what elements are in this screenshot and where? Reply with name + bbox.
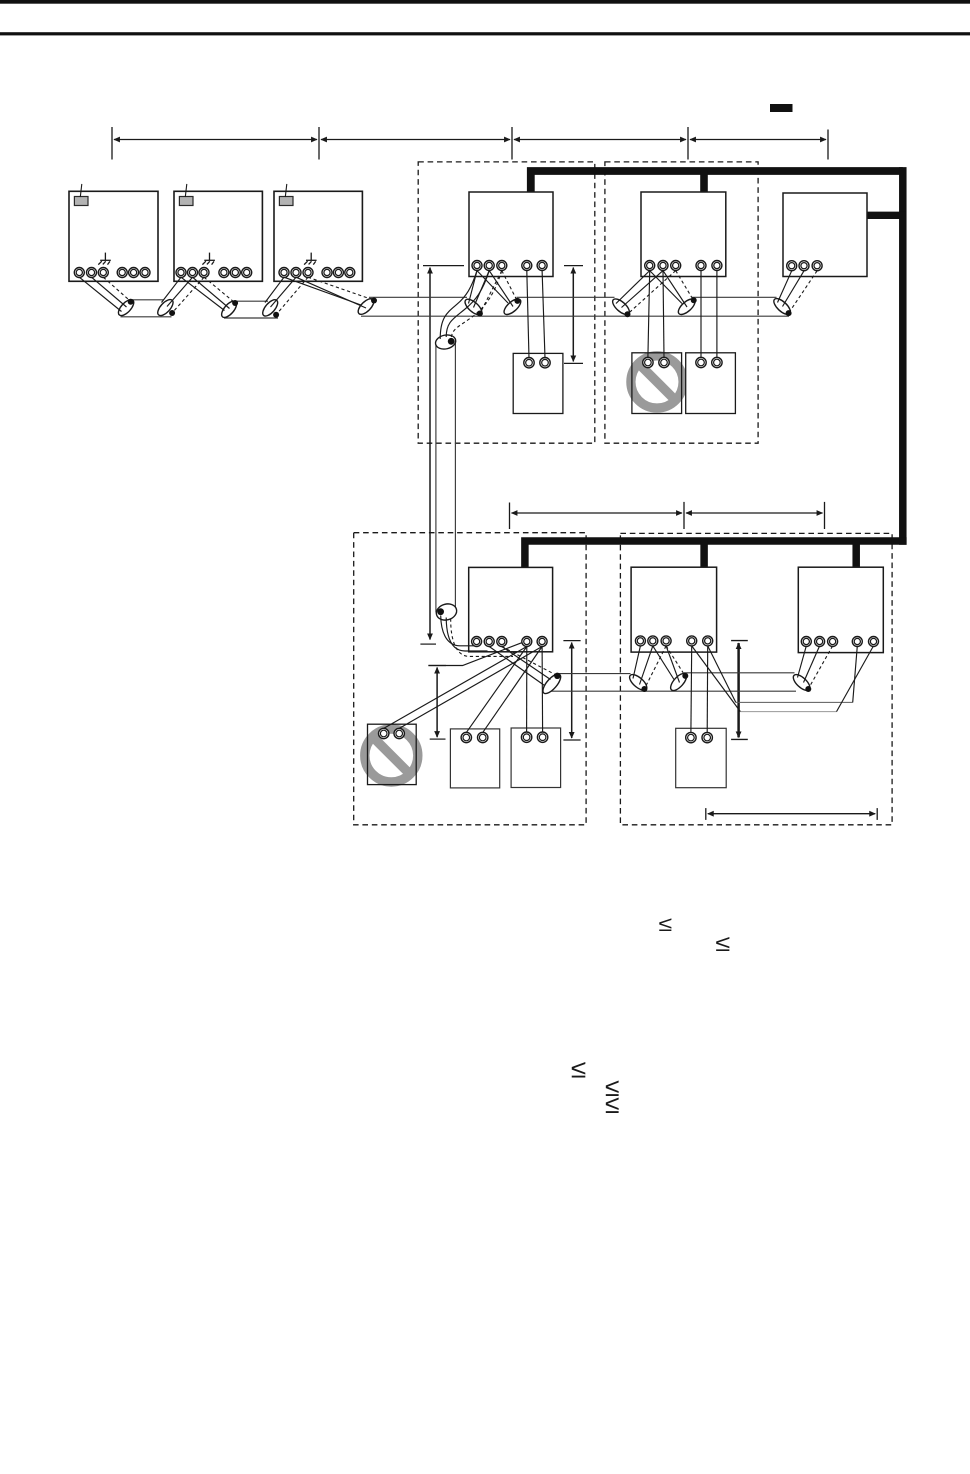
wire U3 t2 to cable T3 bbox=[296, 277, 366, 308]
conduit top chain upper wall segment T3 bbox=[369, 296, 467, 298]
wire daisy chain U8 t5 to U9 t4 bbox=[708, 646, 858, 703]
wire U3 t1 to cable T3 bbox=[284, 277, 361, 305]
remote controller RC2 box bbox=[632, 353, 682, 414]
cable end ellipse T5 left under U5 bbox=[676, 296, 698, 317]
wire U8 t2 to cable U8 right bbox=[653, 646, 674, 680]
dashed system box 2 bbox=[605, 162, 758, 443]
terminal pair RC1 bbox=[524, 358, 550, 368]
tab on unit U2 bbox=[179, 184, 193, 206]
terminal block U9 bbox=[801, 637, 878, 647]
cable end ellipse B under U4 bbox=[502, 296, 524, 317]
wire U7 t3 to cable right of U7 bbox=[502, 647, 551, 680]
wire U4 t1 to cable B bbox=[477, 271, 508, 303]
indoor unit U8 box bbox=[631, 567, 717, 652]
wire U6 t1 to cable T5 end bbox=[778, 271, 792, 303]
wire U1 t1 to cable T1 bbox=[79, 277, 121, 311]
tab on unit U3 bbox=[279, 184, 293, 206]
terminal block U7 bbox=[472, 637, 547, 647]
dashed wire U4 t3 to cable A dot bbox=[480, 271, 502, 313]
wire U4 t2 to cable B bbox=[489, 271, 513, 307]
dashed system box 3 bbox=[354, 533, 586, 825]
wire U5 t2 to cable T4 bbox=[622, 271, 664, 308]
junction dot T4 right bbox=[625, 311, 631, 317]
dimension vertical C bbox=[428, 666, 446, 740]
cable end ellipse T1 left bbox=[116, 297, 137, 318]
junction dot vertical conduit top bbox=[448, 338, 455, 345]
conduit vertical tube walls bbox=[436, 341, 456, 613]
conduit lower chain upper wall segment U7-U8 bbox=[558, 673, 631, 675]
svg-text:≤: ≤ bbox=[658, 912, 672, 936]
svg-text:≤: ≤ bbox=[715, 931, 730, 957]
outdoor unit U3 box bbox=[274, 191, 362, 281]
wire U5 t4 to remote RC3 bbox=[700, 271, 702, 358]
wire U4 t2 to cable A bbox=[474, 271, 490, 308]
terminal block U6 bbox=[787, 261, 822, 271]
dashed wire U2 t3 to T1 right dot bbox=[173, 277, 205, 312]
indoor unit U4 box bbox=[469, 192, 553, 277]
wire U5 t1 to remote RC2 bbox=[648, 271, 650, 358]
dashed wire U6 t3 to T5 right dot bbox=[789, 271, 817, 313]
wire U3 t1 to cable T2 bbox=[265, 277, 284, 302]
dimension line F bottom bbox=[706, 808, 877, 820]
wire U7 t4 to remote RC4 bbox=[384, 647, 527, 729]
terminal pair RC5 bbox=[461, 732, 488, 742]
indoor unit U5 box bbox=[641, 192, 726, 277]
wire U5 t2 to remote RC2 bbox=[663, 271, 664, 358]
terminal block U4 bbox=[472, 261, 547, 271]
wire U2 t2 to cable T2 bbox=[193, 277, 230, 308]
wire elbow bottom conduit to U7 t2 bbox=[446, 618, 487, 652]
dashed wire U4 t3 to cable B dot bbox=[502, 271, 517, 301]
terminal pair RC6 bbox=[521, 732, 547, 742]
dashed wire U7 t3 to cable dot right of U7 bbox=[502, 647, 557, 676]
terminal pair RC3 bbox=[696, 357, 722, 367]
terminal pair RC4 bbox=[379, 728, 405, 738]
dashed wire U4 t3 elbow to vertical conduit dot bbox=[451, 271, 502, 340]
dashed wire elbow bottom to U7 t3 bbox=[451, 619, 513, 657]
power bus drop to unit U9 bbox=[852, 541, 860, 567]
prohibition symbol P2 bbox=[365, 729, 418, 782]
terminal pair RC7 bbox=[686, 732, 713, 742]
conduit elbow opening ellipse top bbox=[434, 333, 457, 351]
junction dot cable U8 right bbox=[682, 673, 688, 679]
wire U9 t1 to cable U9 left bbox=[798, 646, 807, 678]
cable end ellipse U9 left bbox=[791, 672, 813, 693]
dashed wire U9 t3 to U9 left dot bbox=[809, 646, 833, 689]
dimension line mid row bbox=[510, 502, 825, 529]
dashed wire U8 t3 to U8 right dot bbox=[666, 646, 685, 676]
power bus stub to unit U6 bbox=[867, 212, 907, 219]
dimension vertical E bbox=[731, 641, 748, 740]
cable end ellipse T2 left bbox=[219, 299, 239, 320]
header rule 2 bbox=[0, 32, 970, 35]
dashed system box 4 bbox=[620, 533, 892, 824]
conduit top chain upper wall segment T5 bbox=[692, 296, 777, 298]
wire U2 t2 to cable T1 bbox=[167, 277, 193, 306]
junction dot T2 left bbox=[232, 300, 238, 306]
logo bar bbox=[770, 104, 793, 112]
tab on unit U1 bbox=[74, 184, 88, 206]
wire U7 t4 to remote RC5 bbox=[466, 647, 527, 733]
svg-text:≤: ≤ bbox=[605, 1089, 619, 1119]
terminal block U2 bbox=[176, 268, 252, 278]
cable end ellipse U8 left bbox=[627, 672, 649, 693]
cable end ellipse T1 right bbox=[155, 297, 176, 318]
dashed wire U5 t3 to T5 left dot bbox=[676, 271, 694, 300]
conduit lower chain upper wall segment U8-U9 bbox=[684, 672, 795, 674]
dashed wire U3 t3 to T2 right dot bbox=[277, 277, 309, 314]
cable T1 body bbox=[121, 300, 172, 317]
junction dot T2 right bbox=[273, 312, 279, 318]
dashed wire U1 t3 to T1 left dot bbox=[103, 277, 130, 301]
dimension vertical B bbox=[564, 266, 583, 364]
junction dot cable right of U7 bbox=[554, 673, 560, 679]
ground symbol on unit U1 bbox=[98, 253, 111, 265]
junction dot conduit bottom bbox=[437, 608, 444, 615]
wire U7 t5 to remote RC5 bbox=[483, 647, 542, 733]
cable end ellipse T5 right under U6 bbox=[771, 296, 793, 317]
wire U7 t4 to remote RC6 bbox=[526, 647, 528, 733]
conduit opening ellipse bottom near U7 bbox=[434, 602, 458, 623]
terminal block U8 bbox=[635, 636, 712, 646]
wire U8 t1 to cable U8 left bbox=[633, 646, 640, 679]
svg-text:≤: ≤ bbox=[571, 1054, 586, 1083]
prohibition symbol P1 bbox=[631, 356, 683, 408]
terminal block U3 bbox=[279, 268, 355, 278]
remote controller RC5 box bbox=[450, 729, 499, 788]
cable T2 body bbox=[224, 301, 278, 318]
wire U5 t1 to cable T5 bbox=[650, 271, 682, 304]
wire U5 t2 to cable T5 bbox=[663, 271, 687, 307]
ground symbol on unit U2 bbox=[202, 253, 215, 265]
wire bend into U7 t4 bbox=[428, 643, 521, 666]
cable end ellipse T2 right bbox=[260, 297, 280, 318]
conduit lower chain bottom wall bbox=[550, 690, 796, 692]
wire daisy chain U8 t4 to U9 t5 bbox=[692, 646, 874, 712]
cable end ellipse U8 right bbox=[668, 671, 689, 693]
wire U4 t1 to cable A bbox=[469, 271, 478, 304]
power bus right vertical bbox=[899, 167, 907, 545]
remote controller RC3 box bbox=[686, 353, 736, 414]
terminal pair RC2 bbox=[643, 357, 670, 367]
wire U3 t2 to cable T2 bbox=[271, 277, 297, 307]
wire U5 t1 to cable T4 bbox=[616, 271, 650, 304]
wire U8 t4 to remote RC7 bbox=[690, 646, 693, 733]
junction dot cable A bbox=[477, 311, 483, 317]
conduit top chain bottom wall bbox=[361, 315, 789, 317]
dashed wire U2 t3 to T2 left dot bbox=[204, 277, 235, 302]
dashed wire U5 t3 to T4 right dot bbox=[628, 271, 676, 314]
header rule 1 bbox=[0, 0, 970, 4]
conduit top chain upper wall segment T4 bbox=[517, 296, 615, 298]
wire U8 t3 to cable U8 right bbox=[666, 646, 679, 683]
terminal block U5 bbox=[645, 261, 722, 271]
cable end ellipse T3 left bbox=[356, 296, 377, 317]
wire U4 t4 to remote RC1 bbox=[527, 271, 529, 358]
remote controller RC1 box bbox=[513, 353, 563, 413]
cable end ellipse T4 right under U5 bbox=[610, 296, 632, 317]
outdoor unit U1 box bbox=[69, 191, 158, 281]
indoor unit U9 box bbox=[798, 567, 883, 652]
remote controller RC7 box bbox=[676, 728, 727, 787]
dimension vertical D bbox=[563, 641, 580, 740]
power bus lower horizontal with drop to unit U7 bbox=[525, 541, 907, 567]
junction dot cable U9 left bbox=[805, 686, 811, 692]
junction dot cable U8 left bbox=[641, 686, 647, 692]
wire U4 t5 to remote RC1 bbox=[542, 271, 545, 358]
indoor unit U6 box bbox=[783, 193, 867, 277]
wire U8 t5 to remote RC7 bbox=[706, 646, 709, 733]
wire U1 t2 to cable T1 bbox=[92, 277, 127, 307]
dashed wire U8 t3 to U8 left dot bbox=[645, 646, 667, 689]
junction dot T1 left bbox=[128, 299, 134, 305]
power bus drop to unit U5 bbox=[700, 171, 708, 192]
junction dot T3 left bbox=[371, 298, 377, 304]
power bus drop to unit U8 bbox=[700, 541, 708, 567]
wire U5 t5 to remote RC3 bbox=[716, 271, 718, 358]
wire U7 t5 to remote RC6 bbox=[541, 647, 544, 733]
indoor unit U7 box bbox=[469, 567, 553, 651]
junction dot cable B bbox=[514, 298, 520, 304]
junction dot T1 right bbox=[169, 310, 175, 316]
wire U4 t2 elbow into vertical conduit bbox=[446, 271, 489, 337]
wire U8 t2 to cable U8 left bbox=[640, 646, 653, 685]
dimension line top row bbox=[112, 127, 828, 160]
remote controller RC4 box bbox=[368, 724, 417, 784]
outdoor unit U2 box bbox=[174, 191, 262, 281]
cable end ellipse A under U4 bbox=[463, 297, 485, 318]
wire U6 t2 to cable T5 end bbox=[783, 271, 805, 307]
wire U9 t2 to cable U9 left bbox=[804, 646, 820, 683]
power bus top horizontal with drop to unit U4 bbox=[531, 171, 903, 192]
terminal block U1 bbox=[74, 268, 150, 278]
wire U2 t1 to cable T1 bbox=[162, 277, 182, 302]
ground symbol on unit U3 bbox=[304, 253, 317, 265]
wire U2 t1 to cable T2 bbox=[181, 277, 225, 310]
dimension vertical A bbox=[420, 266, 464, 644]
junction dot T5 right bbox=[786, 310, 792, 316]
dashed wire U3 t3 to T3 left dot bbox=[308, 277, 374, 300]
dashed system box 1 bbox=[418, 162, 595, 443]
wire U4 t1 elbow into vertical conduit bbox=[440, 271, 477, 339]
remote controller RC6 box bbox=[511, 728, 560, 788]
wire elbow bottom conduit to U7 t1 bbox=[441, 616, 477, 646]
cable end ellipse right of U7 bbox=[540, 671, 564, 696]
wire U7 t5 to remote RC4 bbox=[399, 647, 542, 729]
wire U7 t2 to cable right of U7 bbox=[489, 647, 544, 686]
junction dot T5 left bbox=[691, 297, 697, 303]
